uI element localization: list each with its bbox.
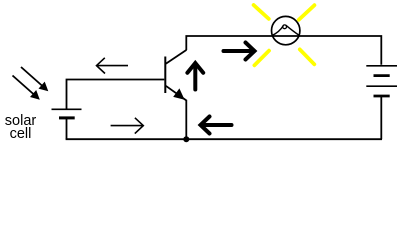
transistor Q1 emitter: [166, 86, 187, 101]
wire: bottom rail: [66, 138, 382, 140]
lamp filament: [272, 25, 300, 35]
lamp ray top-left: [254, 5, 269, 19]
thin right arrow (base current, bottom): [111, 118, 144, 134]
lamp filament loop: [283, 25, 287, 29]
battery long plate 1: [366, 65, 397, 67]
thin left arrow (base current, top): [97, 58, 129, 74]
transistor Q1 base bar: [164, 57, 166, 94]
svg-text:cell: cell: [10, 126, 32, 142]
solar cell long plate: [52, 108, 82, 110]
lamp circle: [272, 16, 300, 44]
wire: emitter down to junction: [185, 100, 187, 139]
lamp ray bottom-left: [254, 51, 269, 66]
light arrow 2: [13, 76, 40, 100]
battery long plate 2: [366, 85, 397, 87]
wire: solar cell bottom to bottom rail: [66, 118, 68, 139]
transistor Q1 collector: [166, 50, 187, 64]
thick right arrow (collector current into lamp): [224, 43, 255, 60]
battery short plate 1: [374, 74, 390, 77]
lamp ray bottom-right: [300, 49, 315, 64]
wire: top rail (collector to lamp to battery): [186, 36, 381, 65]
wire: battery bottom to bottom rail: [380, 96, 382, 139]
solar cell short plate: [59, 116, 75, 119]
lamp ray top-right: [299, 5, 315, 20]
thick up arrow (collector current at transistor): [187, 63, 203, 90]
light arrow 1: [21, 67, 48, 91]
junction node: [183, 136, 189, 142]
thick left arrow (emitter current, bottom): [201, 117, 232, 134]
wire: base wire (solar cell top to transistor base): [67, 80, 165, 109]
battery short plate 2: [374, 95, 390, 98]
